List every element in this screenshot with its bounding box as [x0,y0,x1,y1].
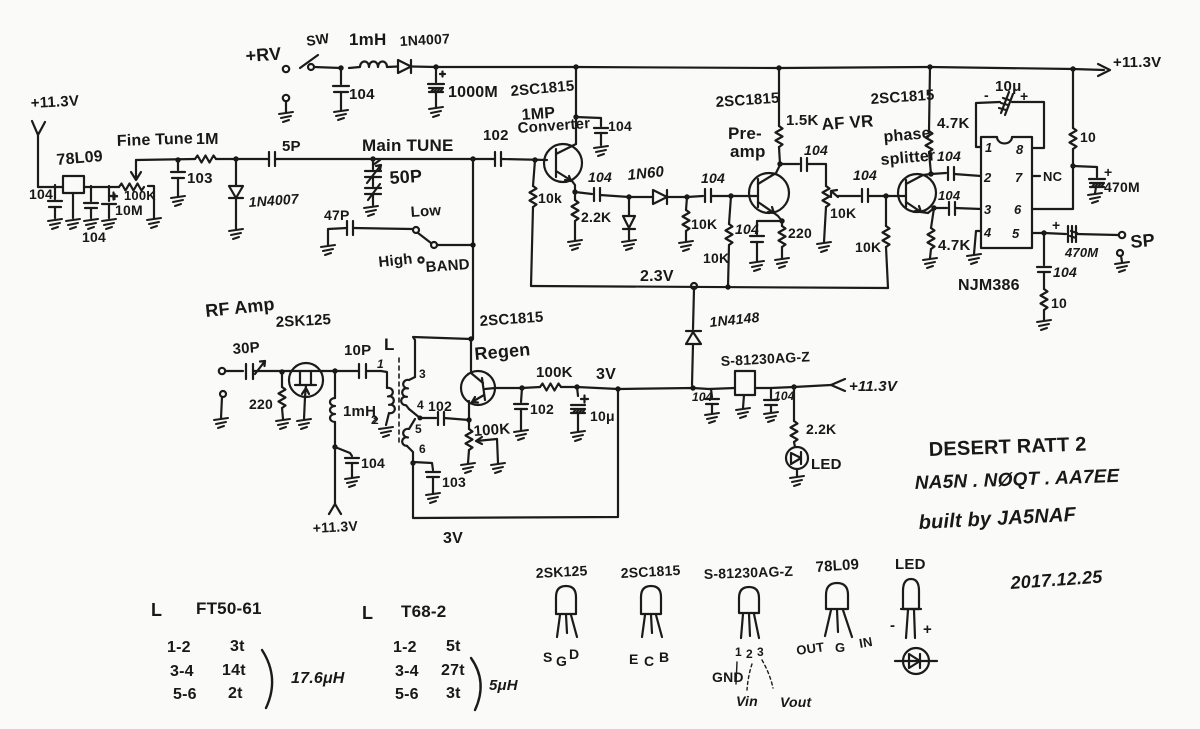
diode 1N4007 (varactor) [229,156,243,239]
svg-text:LED: LED [811,456,842,473]
svg-text:47P: 47P [324,207,350,223]
svg-text:NJM386: NJM386 [958,277,1020,294]
svg-text:6: 6 [1014,202,1022,217]
svg-text:3: 3 [419,367,426,381]
label E C B [629,649,669,669]
svg-text:10: 10 [1051,295,1067,311]
transistor Q1 2SC1815 converter [544,67,582,192]
resistor 4.7K (splitter emitter) [923,205,937,268]
svg-text:3t: 3t [230,638,245,655]
capacitor 102 (base bypass) [514,385,528,440]
svg-text:NA5N . NØQT . AA7EE: NA5N . NØQT . AA7EE [914,466,1120,494]
svg-text:220: 220 [788,225,812,241]
inductor 1mH [349,62,398,68]
wire pin6 feedback [407,391,618,518]
capacitor 104 (converter collector bypass) [573,114,608,156]
svg-text:220: 220 [249,396,273,412]
svg-text:L: L [151,600,162,620]
label L T68-2 table [362,603,373,623]
svg-text:LED: LED [895,556,926,573]
label S G D [543,646,579,669]
svg-text:5-6: 5-6 [395,686,419,703]
svg-text:C: C [644,653,654,669]
resistor 100K (regen base) [522,384,577,391]
svg-text:Main TUNE: Main TUNE [362,136,454,155]
svg-text:D: D [569,646,579,662]
svg-text:104: 104 [1053,264,1077,280]
svg-text:FT50-61: FT50-61 [196,599,262,618]
capacitor 10u (pins 1-8 gain) [976,92,1044,148]
capacitor 5P [236,152,373,166]
label pin numbers [983,140,1024,241]
svg-text:104: 104 [588,169,612,185]
resistor 10 (zobel) [1037,289,1051,330]
svg-text:2SK125: 2SK125 [275,311,331,331]
svg-text:L: L [362,603,373,623]
resistor 2.2K (converter emitter) [568,189,582,250]
svg-text:104: 104 [701,170,725,186]
svg-text:built by JA5NAF: built by JA5NAF [918,504,1077,534]
regulator package S-81230AG-Z pinout [739,587,759,638]
resistor 220 (gate) [276,369,290,429]
wire regulator input [38,186,63,188]
svg-text:3V: 3V [596,366,616,383]
svg-text:L: L [384,335,395,354]
svg-text:4.7K: 4.7K [938,237,971,254]
svg-text:2: 2 [746,647,753,661]
svg-text:E: E [629,651,639,667]
wire pins 4-5 tap [409,409,436,421]
svg-text:SW: SW [305,30,331,49]
svg-text:104: 104 [735,221,759,237]
capacitor 104 (reg output) [84,186,98,229]
svg-text:S-81230AG-Z: S-81230AG-Z [704,563,794,582]
svg-text:30P: 30P [232,339,260,358]
svg-text:B: B [659,649,669,665]
wire pin4 ground [967,231,981,264]
transistor Q5 2SC1815 regen [461,339,522,420]
svg-text:Vout: Vout [780,694,813,710]
svg-text:1: 1 [985,140,992,155]
wire transformer core (dashed) [398,358,400,442]
svg-text:104: 104 [804,142,828,158]
svg-text:2.2K: 2.2K [806,421,836,437]
capacitor 50P variable [364,156,381,216]
svg-text:104: 104 [938,188,961,203]
svg-text:+: + [923,621,932,638]
capacitor 103 [171,157,185,206]
capacitor 102 (regen emitter) [438,412,469,425]
transformer secondary winding pins 3-4 [401,377,415,409]
svg-text:10K: 10K [855,239,881,255]
diode 1N60 [629,190,687,204]
label 1 2 3 [735,645,764,661]
svg-text:Vin: Vin [736,693,758,709]
svg-text:10μ: 10μ [590,408,615,424]
capacitor 104 (preamp coupling) [687,189,731,202]
node +11.3V antenna feed (left) [32,121,45,187]
wire pin6 supply [1032,163,1076,209]
inductor 1mH (drain choke) [330,371,335,447]
svg-text:G: G [556,653,567,669]
svg-text:2SC1815: 2SC1815 [479,309,544,330]
wire 2.3V rail [531,283,888,290]
svg-text:10k: 10k [538,190,562,206]
svg-text:phase: phase [883,125,932,146]
svg-text:1N4007: 1N4007 [399,30,450,49]
svg-text:-: - [984,87,989,103]
capacitor 104 (choke bypass) [332,444,359,487]
resistor 10K (phase splitter base) [883,193,890,288]
svg-text:4: 4 [983,225,992,240]
svg-text:8: 8 [1016,142,1024,157]
svg-text:10P: 10P [344,342,371,359]
wire pin3 to tank [413,336,474,377]
svg-text:102: 102 [530,401,554,417]
wire 78L09 output [84,186,119,188]
svg-text:3-4: 3-4 [170,663,194,680]
wire 78L09 ground pin [66,193,80,229]
svg-text:103: 103 [442,474,466,490]
svg-text:470M: 470M [1064,245,1099,260]
wire main tune line [373,158,495,160]
svg-text:104: 104 [937,148,961,164]
diode shunt (detector) [622,194,636,250]
svg-text:78L09: 78L09 [56,148,104,169]
svg-text:-: - [890,617,895,634]
svg-text:2SC1815: 2SC1815 [620,562,681,581]
resistor 2.2K (LED) [791,387,798,447]
transformer tickler winding pins 5-6 [402,419,415,446]
svg-text:+11.3V: +11.3V [312,518,358,536]
svg-text:SP: SP [1130,230,1156,252]
svg-text:Fine Tune: Fine Tune [117,130,194,150]
svg-text:+: + [1104,164,1112,180]
svg-text:G: G [835,640,845,655]
resistor 1M [195,156,236,163]
svg-text:OUT: OUT [795,639,825,658]
wire pin7 NC [1032,175,1040,177]
svg-text:5t: 5t [446,638,461,655]
capacitor 104 (phase splitter coupling) [862,189,898,202]
svg-text:104: 104 [349,86,375,103]
capacitor 102 (converter input) [495,152,547,166]
wire tank vertical [472,159,474,339]
capacitor 1000M electrolytic [428,64,445,117]
switch SW [300,55,341,70]
LED indicator [786,447,808,486]
potentiometer AF VR 10K [817,186,860,252]
svg-text:Low: Low [410,202,442,221]
svg-text:2.2K: 2.2K [581,209,611,225]
diode 1N4007 (series) [398,60,436,73]
svg-text:3: 3 [984,202,992,217]
wire brace FT50-61 [262,650,272,708]
svg-text:amp: amp [730,142,766,161]
svg-text:2017.12.25: 2017.12.25 [1009,567,1104,593]
transistor Q3 2SC1815 phase splitter [898,174,936,213]
wire +11.3V feed (RF amp) [329,447,341,514]
svg-text:2SC1815: 2SC1815 [870,87,935,108]
label pins 3 4 5 6 [415,367,426,456]
node SP ground terminal [1115,250,1129,272]
svg-text:1-2: 1-2 [393,639,417,656]
svg-text:IN: IN [858,634,874,651]
svg-text:5μH: 5μH [489,677,519,694]
transistor package 2SK125 pinout [556,586,577,637]
capacitor 104 (preamp emitter bypass) [750,218,785,271]
regulator 78L09 [63,176,84,193]
svg-text:104: 104 [853,167,877,183]
svg-text:100K: 100K [124,188,156,203]
svg-text:470M: 470M [1104,179,1140,195]
regulator package 78L09 pinout [825,583,852,637]
svg-text:4.7K: 4.7K [937,115,970,132]
node +RV power input terminal [279,66,293,122]
svg-text:17.6μH: 17.6μH [291,670,345,687]
switch BAND [413,227,473,263]
svg-text:+11.3V: +11.3V [30,92,79,112]
svg-text:27t: 27t [441,662,465,679]
wire 3V rail [577,385,709,391]
svg-text:104: 104 [774,389,795,403]
capacitor 470M (supply bypass) [1073,166,1105,203]
capacitor 104 (to pin3) [934,202,981,215]
svg-text:+11.3V: +11.3V [849,378,899,395]
svg-text:104: 104 [82,229,106,245]
svg-text:1.5K: 1.5K [786,112,819,129]
resistor 10k (converter base bias) [530,157,538,286]
svg-text:10: 10 [1080,129,1096,145]
svg-text:10μ: 10μ [995,78,1021,95]
svg-text:+11.3V: +11.3V [1113,54,1161,71]
node antenna input terminal [219,368,243,374]
svg-text:1mH: 1mH [349,30,386,49]
capacitor 104 (reg input) [48,185,62,229]
transformer primary winding pins 1-2 [379,371,395,437]
svg-text:+: + [1020,88,1028,104]
svg-text:splitter: splitter [880,147,936,169]
svg-text:10K: 10K [703,250,729,266]
wire +11.3V input (right) [771,379,845,391]
resistor 1.5K (preamp collector) [776,68,783,167]
potentiometer 100K regen [461,417,505,473]
resistor 10K (preamp base to 2.3V) [726,193,734,287]
svg-text:+: + [111,189,119,204]
svg-text:Regen: Regen [474,339,532,364]
svg-text:RF Amp: RF Amp [204,294,275,321]
svg-text:1000M: 1000M [448,84,498,101]
svg-text:1M: 1M [196,131,219,148]
svg-text:10M: 10M [115,202,143,218]
LED package pinout [901,579,921,638]
potentiometer Fine Tune 100K [119,160,161,228]
transistor package 2SC1815 pinout [641,586,662,637]
capacitor 104 (regulator output bypass) [764,388,778,422]
capacitor 104 (collector to AF pot) [780,158,826,186]
svg-text:6: 6 [419,442,426,456]
node drain junction [323,368,358,373]
svg-text:102: 102 [428,398,452,414]
svg-text:2SK125: 2SK125 [535,562,588,581]
svg-text:1: 1 [735,645,742,659]
svg-text:104: 104 [608,118,632,134]
svg-text:50P: 50P [389,166,423,188]
svg-text:AF VR: AF VR [821,111,874,134]
node antenna ground terminal [214,391,228,428]
svg-text:3V: 3V [443,530,463,547]
svg-text:2SC1815: 2SC1815 [510,77,575,100]
svg-text:1N4007: 1N4007 [248,190,300,210]
regulator S-81230AG-Z [709,371,771,418]
svg-text:10K: 10K [691,216,717,232]
svg-text:10K: 10K [830,205,856,221]
svg-text:5: 5 [415,422,422,436]
node main tune junction [470,156,475,161]
svg-text:T68-2: T68-2 [401,602,446,621]
svg-text:3: 3 [757,645,764,659]
svg-text:S: S [543,649,553,665]
svg-text:+RV: +RV [245,44,282,66]
label L FT50-61 table [151,600,162,620]
svg-text:7: 7 [1015,170,1023,185]
svg-text:DESERT RATT 2: DESERT RATT 2 [928,434,1086,461]
capacitor 10u (3V filter) [571,384,588,441]
wire brace T68-2 [471,658,481,710]
svg-text:2t: 2t [228,685,243,702]
svg-text:1N60: 1N60 [627,163,666,184]
svg-text:104: 104 [361,455,385,471]
resistor 10 (supply decouple) [1070,69,1077,166]
svg-text:NC: NC [1043,169,1063,184]
wire pin indicator lines [736,660,773,690]
svg-text:1N4148: 1N4148 [709,309,761,330]
svg-text:+: + [1052,217,1060,233]
capacitor 10P [359,364,381,378]
capacitor 47P [321,221,412,255]
diode 1N4148 [686,289,701,385]
capacitor 104 (zobel) [1037,233,1051,289]
svg-text:2: 2 [371,413,378,427]
svg-text:4: 4 [417,398,424,412]
svg-text:5-6: 5-6 [173,686,197,703]
svg-text:1: 1 [377,357,384,371]
svg-text:5P: 5P [282,138,301,155]
wire fine tune line [136,159,195,160]
svg-text:High: High [378,251,414,271]
svg-text:BAND: BAND [425,256,470,276]
op-amp U1 NJM386 [981,137,1032,248]
svg-text:Pre-: Pre- [728,124,762,143]
node rail junctions [573,64,1075,71]
svg-text:5: 5 [1012,226,1020,241]
svg-text:2: 2 [983,170,992,185]
svg-text:GND: GND [712,669,744,685]
resistor 220 (preamp emitter) [775,221,789,268]
transistor Q2 2SC1815 preamp [731,165,789,221]
svg-text:S-81230AG-Z: S-81230AG-Z [720,348,810,369]
capacitor 104 (detector coupling) [575,188,629,201]
capacitor 104 (to pin2) [931,167,981,180]
svg-text:2.3V: 2.3V [640,268,674,285]
svg-text:104: 104 [29,186,53,202]
node band junction [470,242,475,247]
LED schematic symbol (diode in circle) [895,648,937,674]
capacitor 103 (pin6 bypass) [413,462,440,503]
svg-text:102: 102 [483,127,509,144]
transistor Q4 2SK125 JFET [289,363,323,429]
capacitor 104 (regulator input bypass) [705,389,719,423]
capacitor 10M electrolytic [102,186,117,229]
svg-text:3-4: 3-4 [395,663,419,680]
capacitor 30P trimmer [246,361,289,379]
svg-text:103: 103 [187,170,213,187]
capacitor 104 (power input bypass) [333,65,349,120]
label OUT G IN [795,634,873,658]
resistor 4.7K (splitter collector) [926,67,934,177]
svg-text:2SC1815: 2SC1815 [715,90,780,111]
svg-text:100K: 100K [536,364,573,381]
svg-text:78L09: 78L09 [815,556,860,576]
svg-text:14t: 14t [222,662,246,679]
wire +11.3V top rail [436,64,1110,76]
resistor 10K (detector load) [679,194,693,251]
svg-text:1-2: 1-2 [167,639,191,656]
svg-text:3t: 3t [446,685,461,702]
svg-text:100K: 100K [473,420,511,440]
svg-text:104: 104 [692,390,713,404]
capacitor 470M (output) [1032,226,1125,242]
